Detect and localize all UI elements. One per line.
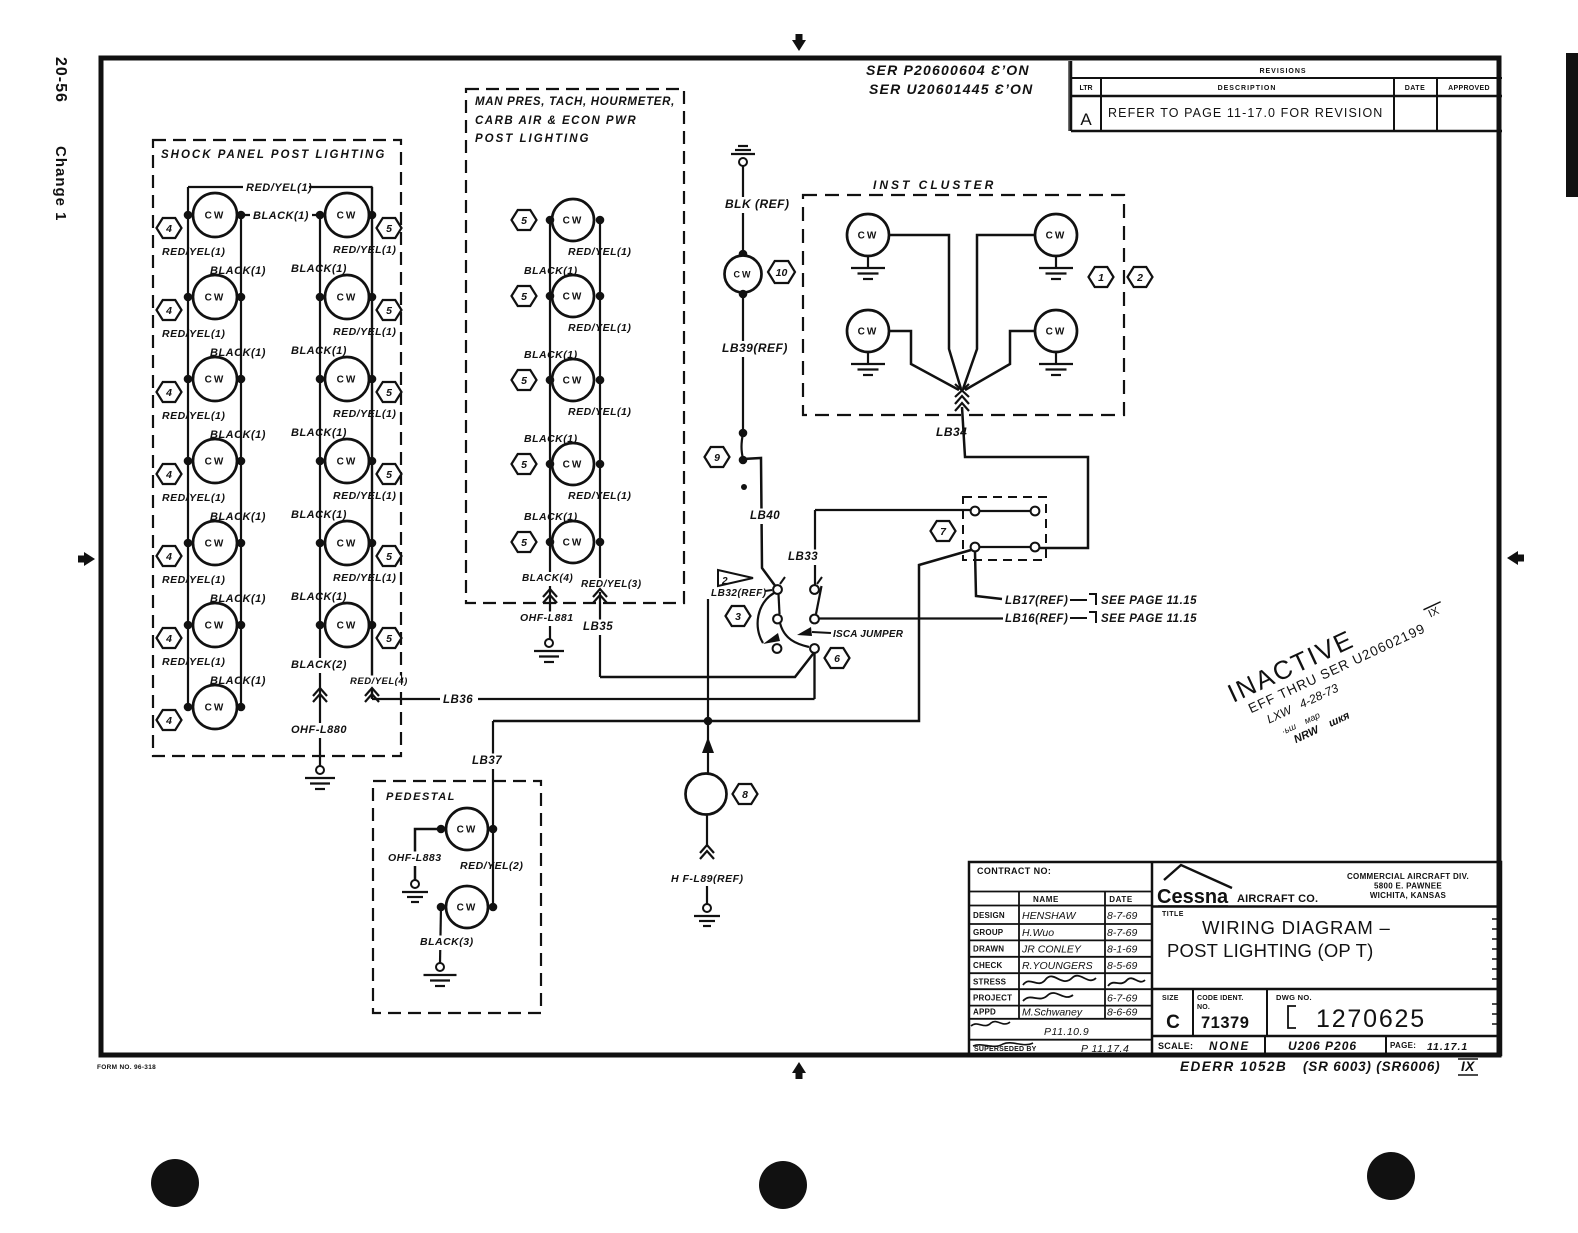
svg-text:5: 5 [386,223,392,235]
svg-text:SCALE:: SCALE: [1158,1041,1193,1051]
svg-text:CW: CW [457,903,478,914]
svg-text:H F-L89(REF): H F-L89(REF) [671,873,744,885]
svg-text:REVISIONS: REVISIONS [1259,68,1306,75]
svg-text:6-7-69: 6-7-69 [1107,993,1138,1005]
svg-text:71379: 71379 [1201,1014,1249,1032]
svg-text:LB17(REF): LB17(REF) [1005,595,1068,607]
svg-text:8-5-69: 8-5-69 [1107,960,1138,972]
svg-text:4: 4 [165,551,172,563]
svg-text:LB39(REF): LB39(REF) [722,341,788,355]
svg-text:BLACK(1): BLACK(1) [291,509,347,521]
svg-text:GROUP: GROUP [973,928,1004,937]
svg-text:DRAWN: DRAWN [973,945,1004,954]
svg-text:NO.: NO. [1197,1004,1210,1011]
svg-text:BLACK(1): BLACK(1) [291,345,347,357]
svg-text:CW: CW [734,270,753,280]
svg-text:RED/YEL(3): RED/YEL(3) [581,579,642,590]
svg-text:OHF-L881: OHF-L881 [520,612,574,624]
svg-text:5800 E. PAWNEE: 5800 E. PAWNEE [1374,882,1442,891]
svg-text:5: 5 [386,387,392,399]
svg-text:DESIGN: DESIGN [973,911,1005,920]
svg-text:CODE IDENT.: CODE IDENT. [1197,995,1244,1002]
svg-text:H.Wuo: H.Wuo [1022,927,1054,939]
svg-text:RED/YEL(2): RED/YEL(2) [460,860,523,872]
svg-text:8-1-69: 8-1-69 [1107,944,1138,956]
svg-text:5: 5 [386,633,392,645]
svg-text:IX: IX [1461,1059,1475,1074]
svg-text:BLACK(1): BLACK(1) [291,591,347,603]
svg-text:4: 4 [165,223,172,235]
svg-text:SUPERSEDED BY: SUPERSEDED BY [974,1046,1037,1053]
svg-text:APPROVED: APPROVED [1448,85,1490,92]
svg-text:BLACK(3): BLACK(3) [420,936,474,948]
svg-text:HENSHAW: HENSHAW [1022,910,1077,922]
svg-text:R.YOUNGERS: R.YOUNGERS [1022,960,1093,972]
svg-text:8-7-69: 8-7-69 [1107,910,1138,922]
svg-text:1: 1 [1098,272,1104,284]
svg-text:5: 5 [521,537,527,549]
svg-text:NONE: NONE [1209,1041,1250,1053]
svg-text:SER P20600604 Ɛ’ON: SER P20600604 Ɛ’ON [866,62,1030,78]
svg-text:PEDESTAL: PEDESTAL [386,791,456,803]
svg-text:LB35: LB35 [583,621,613,633]
svg-text:CW: CW [858,231,879,242]
svg-text:DWG NO.: DWG NO. [1276,993,1312,1002]
svg-text:DESCRIPTION: DESCRIPTION [1218,85,1277,92]
svg-text:Cessna: Cessna [1157,886,1229,908]
svg-text:APPD: APPD [973,1008,996,1017]
svg-text:CW: CW [1046,327,1067,338]
svg-text:DATE: DATE [1405,85,1426,92]
svg-text:CW: CW [337,211,358,222]
svg-text:CW: CW [563,216,584,227]
svg-text:RED/YEL(1): RED/YEL(1) [333,572,396,584]
svg-text:LB32(REF): LB32(REF) [711,588,767,599]
svg-text:2: 2 [721,576,728,587]
svg-text:CW: CW [205,457,226,468]
svg-text:RED/YEL(1): RED/YEL(1) [568,406,631,418]
svg-text:LB40: LB40 [750,510,780,522]
svg-text:RED/YEL(1): RED/YEL(1) [162,328,225,340]
svg-text:LB16(REF): LB16(REF) [1005,613,1068,625]
svg-text:4: 4 [165,715,172,727]
svg-text:RED/YEL(1): RED/YEL(1) [246,182,312,194]
svg-text:5: 5 [386,551,392,563]
svg-text:SEE PAGE 11.15: SEE PAGE 11.15 [1101,595,1197,607]
svg-text:CW: CW [563,538,584,549]
svg-text:BLACK(1): BLACK(1) [291,263,347,275]
svg-text:PAGE:: PAGE: [1390,1041,1416,1050]
svg-text:Change 1: Change 1 [52,146,69,222]
svg-text:M.Schwaney: M.Schwaney [1022,1007,1083,1019]
svg-text:BLACK(2): BLACK(2) [291,659,347,671]
svg-text:CW: CW [337,539,358,550]
svg-text:5: 5 [521,459,527,471]
svg-text:SER U20601445 Ɛ’ON: SER U20601445 Ɛ’ON [869,81,1033,97]
svg-text:4: 4 [165,469,172,481]
svg-text:JR CONLEY: JR CONLEY [1021,944,1082,956]
svg-text:PROJECT: PROJECT [973,994,1012,1003]
svg-text:NAME: NAME [1033,895,1059,904]
svg-text:CW: CW [457,825,478,836]
svg-text:2: 2 [1136,272,1143,284]
svg-text:5: 5 [386,469,392,481]
svg-text:9: 9 [714,452,720,464]
svg-text:LB36: LB36 [443,694,473,706]
svg-text:WICHITA, KANSAS: WICHITA, KANSAS [1370,891,1447,900]
svg-text:EDERR 1052B: EDERR 1052B [1180,1059,1287,1074]
svg-text:20-56: 20-56 [52,57,69,103]
svg-text:CHECK: CHECK [973,961,1002,970]
svg-text:RED/YEL(1): RED/YEL(1) [568,490,631,502]
svg-text:AIRCRAFT CO.: AIRCRAFT CO. [1237,893,1318,905]
svg-text:SIZE: SIZE [1162,995,1179,1002]
svg-text:5: 5 [521,375,527,387]
svg-text:5: 5 [521,291,527,303]
svg-text:OHF-L883: OHF-L883 [388,852,442,864]
svg-text:WIRING DIAGRAM –: WIRING DIAGRAM – [1202,917,1391,938]
svg-text:TITLE: TITLE [1162,911,1184,918]
svg-text:8: 8 [742,789,748,801]
svg-text:5: 5 [386,305,392,317]
svg-text:RED/YEL(1): RED/YEL(1) [333,244,396,256]
svg-text:RED/YEL(1): RED/YEL(1) [333,408,396,420]
svg-text:U206 P206: U206 P206 [1288,1039,1357,1053]
svg-text:CW: CW [337,375,358,386]
svg-text:POST LIGHTING (OP T): POST LIGHTING (OP T) [1167,940,1374,961]
svg-text:LB37: LB37 [472,755,502,767]
svg-text:10: 10 [776,267,788,279]
svg-text:C: C [1166,1012,1180,1033]
svg-text:STRESS: STRESS [973,978,1007,987]
svg-text:FORM NO. 96-318: FORM NO. 96-318 [97,1064,156,1071]
svg-text:CW: CW [337,621,358,632]
svg-text:4: 4 [165,633,172,645]
svg-text:8-7-69: 8-7-69 [1107,927,1138,939]
svg-text:COMMERCIAL AIRCRAFT DIV.: COMMERCIAL AIRCRAFT DIV. [1347,872,1469,881]
svg-text:RED/YEL(1): RED/YEL(1) [162,246,225,258]
svg-text:CW: CW [205,293,226,304]
svg-text:CW: CW [205,621,226,632]
svg-text:CW: CW [205,703,226,714]
svg-text:(SR 6003) (SR6006): (SR 6003) (SR6006) [1303,1059,1440,1074]
svg-text:POST LIGHTING: POST LIGHTING [475,133,590,145]
svg-text:5: 5 [521,215,527,227]
svg-text:RED/YEL(1): RED/YEL(1) [333,326,396,338]
svg-text:CONTRACT NO:: CONTRACT NO: [977,866,1051,876]
svg-text:CW: CW [1046,231,1067,242]
svg-text:ISCA JUMPER: ISCA JUMPER [833,629,904,640]
svg-text:SEE PAGE 11.15: SEE PAGE 11.15 [1101,613,1197,625]
svg-text:RED/YEL(1): RED/YEL(1) [162,656,225,668]
svg-text:CW: CW [337,457,358,468]
svg-text:6: 6 [834,653,840,665]
svg-text:CARB AIR & ECON PWR: CARB AIR & ECON PWR [475,115,637,127]
svg-text:REFER TO PAGE 11-17.0 FOR REV: REFER TO PAGE 11-17.0 FOR REVISION [1108,106,1383,120]
svg-text:P 11.17.4: P 11.17.4 [1081,1043,1129,1055]
svg-text:RED/YEL(1): RED/YEL(1) [568,322,631,334]
svg-text:CW: CW [563,376,584,387]
svg-text:RED/YEL(1): RED/YEL(1) [162,574,225,586]
svg-text:CW: CW [563,292,584,303]
svg-text:DATE: DATE [1109,895,1133,904]
svg-text:LTR: LTR [1079,85,1092,92]
svg-text:3: 3 [735,611,741,623]
svg-text:INST CLUSTER: INST CLUSTER [873,178,996,192]
svg-text:OHF-L880: OHF-L880 [291,724,347,736]
svg-text:BLK (REF): BLK (REF) [725,197,790,211]
svg-text:11.17.1: 11.17.1 [1427,1041,1468,1053]
svg-text:CW: CW [858,327,879,338]
svg-text:CW: CW [205,211,226,222]
svg-text:MAN PRES, TACH, HOURMETER,: MAN PRES, TACH, HOURMETER, [475,96,675,108]
svg-text:CW: CW [205,539,226,550]
svg-text:BLACK(4): BLACK(4) [522,573,573,584]
svg-text:4: 4 [165,305,172,317]
svg-text:CW: CW [337,293,358,304]
svg-text:RED/YEL(1): RED/YEL(1) [162,492,225,504]
svg-text:RED/YEL(1): RED/YEL(1) [162,410,225,422]
svg-text:RED/YEL(1): RED/YEL(1) [568,246,631,258]
svg-text:A: A [1080,110,1092,129]
svg-text:RED/YEL(1): RED/YEL(1) [333,490,396,502]
svg-text:LB33: LB33 [788,551,818,563]
svg-text:CW: CW [563,460,584,471]
svg-text:BLACK(1): BLACK(1) [253,210,309,222]
svg-text:4: 4 [165,387,172,399]
svg-text:8-6-69: 8-6-69 [1107,1007,1138,1019]
svg-text:SHOCK PANEL POST LIGHTING: SHOCK PANEL POST LIGHTING [161,149,386,161]
svg-text:P11.10.9: P11.10.9 [1044,1026,1089,1038]
svg-text:BLACK(1): BLACK(1) [291,427,347,439]
svg-text:RED/YEL(4): RED/YEL(4) [350,676,408,687]
svg-text:1270625: 1270625 [1316,1005,1426,1033]
svg-text:CW: CW [205,375,226,386]
svg-text:LB34: LB34 [936,425,967,439]
